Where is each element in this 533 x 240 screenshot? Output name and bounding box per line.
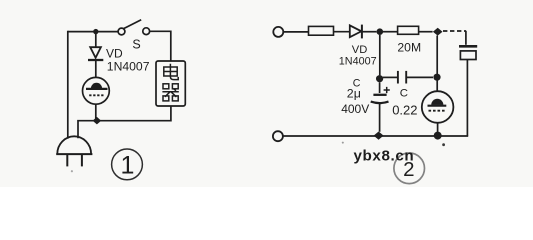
- svg-text:S: S: [132, 37, 140, 51]
- svg-text:20M: 20M: [397, 40, 421, 54]
- wire: node B down to lamp: [436, 36, 438, 92]
- wire: diode to node A: [362, 31, 376, 33]
- wire: node B to top right corner (dashed scan look): [443, 30, 466, 32]
- wire: lamp to node F: [437, 123, 439, 132]
- diode VD (circuit 1): [88, 34, 103, 60]
- switch S: [118, 20, 150, 35]
- terminal: circuit 2 input top: [273, 27, 283, 37]
- svg-text:0.22: 0.22: [392, 102, 417, 117]
- figure label 2 circle: [394, 153, 425, 184]
- svg-text:VD: VD: [352, 44, 368, 56]
- junction: node C (0.22 tap): [376, 75, 383, 82]
- svg-text:1N4007: 1N4007: [339, 56, 377, 68]
- wire: C1 to node D: [379, 104, 381, 132]
- char 器: [162, 84, 178, 101]
- svg-text:C: C: [400, 88, 408, 100]
- junction: node F: [434, 132, 442, 140]
- wire: diode to neon lamp: [95, 61, 97, 78]
- faint speck below plug: [71, 170, 73, 172]
- junction: node D (diamond): [374, 132, 384, 140]
- junction: node E (lamp / 0.22): [433, 74, 440, 81]
- capacitor C2 (0.22) with branch wires: [383, 71, 433, 84]
- svg-text:1: 1: [120, 152, 134, 180]
- neon lamp HL1: [83, 77, 110, 104]
- figure label 1: [112, 149, 143, 180]
- junction: top rail / diode branch node: [93, 29, 98, 34]
- wire: switch to load box (top right corner): [150, 31, 171, 61]
- svg-text:ybx8.cn: ybx8.cn: [354, 148, 415, 165]
- svg-text:2μ: 2μ: [347, 87, 361, 101]
- resistor R1: [309, 26, 334, 35]
- wire: node A to resistor R2: [383, 31, 398, 33]
- wire: node A down to node C: [379, 35, 381, 76]
- neon lamp HL2: [422, 91, 454, 123]
- char 电: [164, 64, 178, 80]
- wire: R2 to node B: [419, 31, 433, 33]
- terminal: circuit 2 input bottom: [273, 131, 283, 141]
- wire: terminal to resistor R1: [284, 31, 309, 33]
- wire: node C to capacitor C1: [379, 82, 381, 93]
- junction: node B (diamond): [433, 28, 443, 36]
- capacitor C3 (output, polarized): [459, 46, 477, 59]
- wire: circuit 1 left rail: [67, 31, 69, 139]
- speck near lamp2 top right: [442, 143, 445, 146]
- svg-text:400V: 400V: [341, 102, 369, 116]
- junction: node A: [377, 28, 384, 35]
- resistor R2 (20M): [398, 26, 419, 34]
- capacitor C1 (electrolytic 2u 400V): [371, 87, 390, 103]
- wire: circuit 2 bottom rail: [283, 135, 468, 137]
- load box 电器: [156, 61, 185, 106]
- wire: circuit 1 bottom rail (plug to load box): [78, 106, 171, 138]
- wire: corner down to capacitor C3: [465, 31, 467, 45]
- svg-text:1N4007: 1N4007: [107, 59, 150, 73]
- wire: C3 to bottom rail: [466, 60, 468, 136]
- wire: R1 to diode: [334, 31, 350, 33]
- wire: lamp to bottom node: [95, 104, 97, 119]
- junction: circuit 1 bottom node (diamond): [93, 117, 102, 125]
- plug P (mains): [56, 136, 92, 166]
- faint speck left of watermark: [342, 142, 344, 144]
- svg-text:VD: VD: [106, 46, 123, 60]
- wire: circuit 1 top rail from left corner to switch: [68, 31, 118, 33]
- diode VD 1N4007 (circuit 2): [350, 25, 362, 39]
